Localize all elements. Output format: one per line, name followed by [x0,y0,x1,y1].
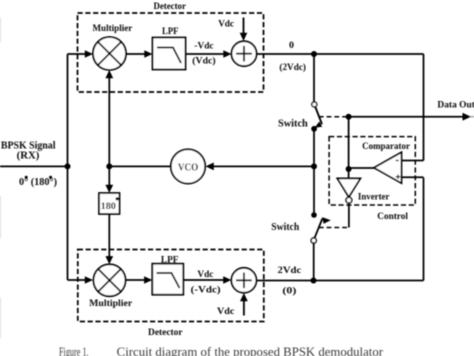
scan artifacts left edge [0,18,1,42]
svg-text:Multiplier: Multiplier [89,299,133,309]
wire right vertical top [423,54,425,161]
wire comparator feed vertical [348,117,350,179]
wire VCO output left [109,165,171,167]
wire adder top output [257,53,424,55]
svg-text:Multiplier: Multiplier [93,24,134,34]
svg-text:(Vdc): (Vdc) [192,56,215,67]
wire Vdc arrow into adder bottom [240,293,248,316]
svg-text:180: 180 [101,202,117,212]
svg-text:Vdc: Vdc [218,19,234,29]
svg-text:Control: Control [377,212,408,222]
wire Vdc arrow into adder top [240,18,248,42]
node comparator output junction [346,166,352,172]
svg-text:Detector: Detector [148,328,183,338]
wire switch dashed control top [319,116,349,118]
svg-text:Vdc: Vdc [217,307,234,317]
node top output junction [311,51,317,57]
wire comparator output [349,167,376,169]
svg-text:(0): (0) [282,285,296,296]
node data out junction [346,114,352,120]
wire LPF to adder bottom [183,276,231,284]
svg-text:Circuit diagram of the propose: Circuit diagram of the proposed BPSK dem… [117,345,384,356]
wire switch column middle [313,129,315,214]
wire inverter output down [348,203,350,228]
svg-text:0: 0 [289,41,294,51]
phase shifter 180 box [99,193,120,214]
svg-text:(-Vdc): (-Vdc) [191,284,221,295]
wire data out faint continuation [470,116,474,118]
wire left vertical [67,54,69,280]
svg-text:Detector: Detector [154,2,187,12]
wire comparator minus input [402,160,424,162]
svg-text:2Vdc: 2Vdc [278,266,302,276]
wire into bottom multiplier [68,276,94,284]
svg-text:Switch: Switch [271,222,299,233]
wire LPF to adder top [186,50,232,58]
comparator U4 [374,152,402,183]
wire 180 box down to bottom multiplier [105,214,113,264]
detector box bottom (dashed) [78,250,264,322]
LPF box bottom [152,264,183,295]
wire switch column bottom [313,243,315,280]
wire comparator plus input [402,176,424,178]
node VCO feed junction [311,163,317,169]
multiplier U1 (top) [93,37,126,70]
node BPSK junction [65,163,71,169]
switch S2 (bottom) [311,212,331,243]
wire multiplier to LPF top [126,50,153,58]
svg-text:Inverter: Inverter [358,193,390,203]
node bottom output junction [311,278,317,284]
wire carrier up into top multiplier [105,70,113,166]
wire multiplier to LPF bottom [126,276,153,284]
svg-text:VCO: VCO [178,163,199,174]
wire switch dashed control bottom [319,227,350,229]
svg-text:LPF: LPF [162,27,179,37]
inverter U5 [337,178,360,203]
svg-text:Switch: Switch [278,119,308,130]
wire right vertical bottom [423,178,425,281]
adder A1 (top) [232,41,257,66]
wire switch column top [313,54,315,102]
svg-text:-Vdc: -Vdc [194,42,213,52]
wire data out [349,113,471,121]
svg-text:Comparator: Comparator [362,142,411,152]
svg-text:Figure 1.: Figure 1. [59,345,89,356]
switch S1 (top) [311,102,322,132]
svg-text:Data Out: Data Out [437,100,474,110]
detector box top (dashed) [78,13,264,92]
LPF box top [153,38,186,70]
svg-text:Vdc: Vdc [197,270,213,280]
multiplier U2 (bottom) [94,264,126,296]
wire BPSK input [0,165,68,167]
wire into top multiplier [68,50,94,58]
wire adder bottom output [256,280,423,282]
control box (dashed) [329,137,415,205]
VCO U3 [171,149,205,183]
node VCO output junction [106,163,112,169]
adder A2 (bottom) [231,268,256,293]
svg-text:LPF: LPF [161,256,179,266]
wire VCO input from right [206,163,315,171]
svg-text:(2Vdc): (2Vdc) [279,62,306,73]
wire down to 180 box [105,166,113,193]
svg-text:(RX): (RX) [17,151,40,162]
